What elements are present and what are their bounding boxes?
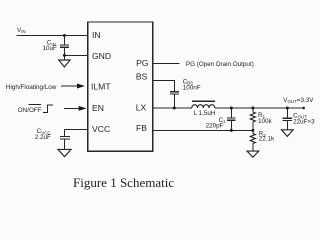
svg-text:22uF×3: 22uF×3 [293,119,315,126]
svg-text:VCC: VCC [92,124,110,134]
svg-text:PG (Open Drain Output): PG (Open Drain Output) [186,61,254,68]
svg-text:10uF: 10uF [42,45,57,52]
svg-text:Figure 1 Schematic: Figure 1 Schematic [73,175,174,190]
svg-text:100k: 100k [258,118,273,125]
svg-text:GND: GND [92,51,111,61]
svg-text:EN: EN [92,103,104,113]
svg-text:L 1.5uH: L 1.5uH [194,110,216,117]
svg-text:BS: BS [136,71,148,81]
svg-text:ON/OFF: ON/OFF [18,107,42,114]
svg-text:2.2uF: 2.2uF [35,134,51,141]
svg-text:100nF: 100nF [183,85,201,92]
svg-text:FB: FB [136,123,147,133]
svg-text:22.1k: 22.1k [259,136,275,143]
svg-text:LX: LX [136,103,147,113]
svg-text:ILMT: ILMT [91,81,111,91]
svg-text:220pF: 220pF [206,123,224,130]
svg-text:IN: IN [92,30,101,40]
svg-text:High/Floating/Low: High/Floating/Low [6,84,57,91]
svg-text:PG: PG [136,58,149,68]
